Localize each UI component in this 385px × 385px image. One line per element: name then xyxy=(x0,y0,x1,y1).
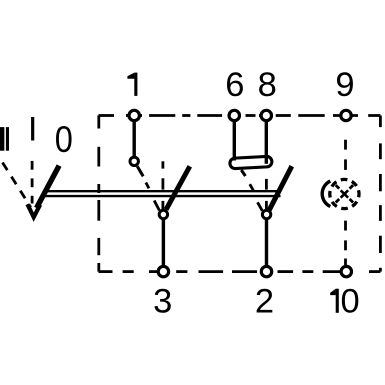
wire contact B to terminal 2 xyxy=(265,220,268,267)
lever arrowhead xyxy=(27,204,40,217)
lamp L (dashed circle) xyxy=(330,179,359,208)
moving contact pivot A xyxy=(159,210,167,218)
terminal 3 xyxy=(158,266,168,276)
wire terminal 6 to bridge xyxy=(233,122,236,161)
svg-text:3: 3 xyxy=(153,283,172,321)
svg-text:2: 2 xyxy=(255,283,274,321)
label II (position marker, clipped at left edge) xyxy=(0,127,9,151)
moving contact blade A (thick) xyxy=(166,166,190,209)
label terminal 10 xyxy=(330,289,339,313)
terminal 9 xyxy=(341,110,351,120)
actuator bar (double line) xyxy=(44,191,280,196)
switch housing outline top edge (dashed) xyxy=(99,114,381,117)
lever alternate position I (dashed vertical) xyxy=(31,161,34,204)
terminal 10 xyxy=(341,266,351,276)
lamp cross radial dashes xyxy=(336,185,353,202)
wire contact A to terminal 3 xyxy=(162,220,165,267)
contact B alternate position (dashed vertical) xyxy=(265,179,268,209)
svg-text:9: 9 xyxy=(335,66,354,104)
bridge alternate blade (dashed) xyxy=(250,184,262,211)
terminal 6 xyxy=(229,110,239,120)
svg-text:6: 6 xyxy=(225,66,244,104)
terminal 1 xyxy=(129,110,139,120)
moving contact pivot B xyxy=(262,210,270,218)
wire lamp to terminal 10 (dashed) xyxy=(344,221,347,265)
lever alternate position II (dashed diagonal) xyxy=(3,163,31,208)
switch housing outline right edge (dashed) xyxy=(379,116,382,272)
svg-text:8: 8 xyxy=(258,66,277,104)
wire terminal 8 to bridge xyxy=(265,122,268,164)
svg-text:0: 0 xyxy=(341,283,360,321)
wire terminal 9 to lamp (dashed) xyxy=(344,140,347,170)
switch housing outline left edge (dashed) xyxy=(97,116,100,272)
fixed contact 1 stub xyxy=(137,166,143,176)
lamp illumination arc "(" xyxy=(322,181,330,206)
svg-text:I: I xyxy=(28,110,38,148)
contact 1 alternate blade (dashed) xyxy=(146,183,160,211)
lamp cross center xyxy=(341,190,348,197)
moving contact blade B (thick) xyxy=(269,166,292,211)
fixed contact 1 circle xyxy=(130,157,138,165)
terminal 8 xyxy=(261,110,271,120)
terminal 2 xyxy=(261,266,271,276)
switch housing outline bottom edge (dashed) xyxy=(99,270,381,273)
wire terminal 1 to fixed contact xyxy=(132,122,135,158)
bridge contact stub xyxy=(241,170,245,176)
svg-text:0: 0 xyxy=(55,119,73,160)
operating lever (solid, position 0) xyxy=(37,166,60,208)
label terminal 1 xyxy=(127,73,137,96)
bridge contact 6-8 (capsule) xyxy=(230,156,272,169)
contact A alternate position (dashed vertical) xyxy=(161,161,164,209)
